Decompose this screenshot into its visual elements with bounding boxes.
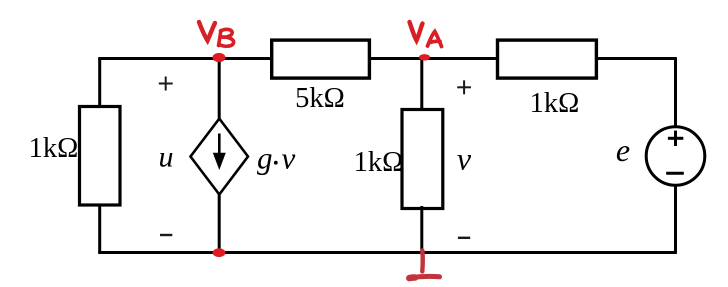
node VA handwritten label A bbox=[428, 32, 442, 47]
wire left branch top bbox=[98, 59, 101, 111]
wire VA branch down bbox=[420, 59, 423, 113]
wire top rail bbox=[98, 57, 677, 60]
node VA handwritten label V bbox=[410, 22, 423, 41]
plus sign of u bbox=[159, 77, 173, 91]
wire dependent source bottom branch bbox=[218, 193, 221, 253]
voltage source V1 e (circle) bbox=[646, 127, 705, 186]
resistor R1 1kΩ left (vertical box) bbox=[80, 107, 121, 206]
svg-text:v: v bbox=[457, 141, 472, 177]
wire VB branch to dependent source bbox=[218, 59, 221, 121]
svg-text:1kΩ: 1kΩ bbox=[354, 147, 404, 178]
node VB handwritten label V bbox=[199, 22, 215, 41]
node bottom red dot (reference junction) bbox=[213, 248, 226, 257]
svg-text:1kΩ: 1kΩ bbox=[530, 88, 580, 119]
wire middle resistor bottom branch bbox=[420, 206, 423, 253]
svg-text:v: v bbox=[282, 141, 296, 176]
source plus sign bbox=[668, 131, 683, 146]
svg-text:g: g bbox=[257, 141, 273, 176]
dependent current source U1 diamond bbox=[191, 119, 249, 195]
resistor R4 1kΩ top right (horizontal box) bbox=[498, 40, 597, 78]
svg-text:5kΩ: 5kΩ bbox=[295, 83, 345, 114]
node VB handwritten label B bbox=[219, 29, 234, 46]
minus sign of u bbox=[160, 234, 172, 236]
minus sign of v bbox=[458, 237, 470, 239]
svg-text:1kΩ: 1kΩ bbox=[29, 133, 79, 164]
node VB red dot bbox=[213, 53, 226, 62]
dependent source arrow bbox=[213, 134, 226, 171]
ground symbol (red handwritten) bbox=[409, 251, 439, 279]
node VA red dot bbox=[419, 54, 430, 60]
wire bottom rail bbox=[98, 251, 677, 254]
wire left branch bottom bbox=[98, 203, 101, 253]
wire right branch bottom bbox=[674, 184, 677, 253]
svg-text:e: e bbox=[616, 132, 630, 168]
resistor R2 5kΩ (horizontal box) bbox=[272, 40, 370, 78]
svg-text:u: u bbox=[159, 140, 174, 173]
resistor R3 1kΩ middle (vertical box) bbox=[402, 110, 443, 209]
wire right branch top bbox=[674, 59, 677, 129]
plus sign of v bbox=[457, 80, 471, 94]
source minus sign bbox=[666, 172, 684, 175]
